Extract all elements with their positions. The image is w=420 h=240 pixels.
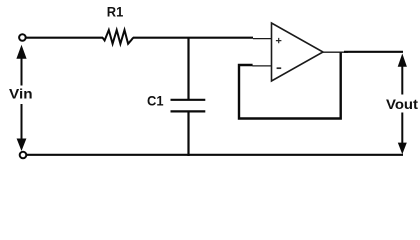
wire: bottom rail (26, 154, 403, 156)
svg-text:Vin: Vin (9, 87, 33, 102)
resistor R1 (103, 30, 134, 44)
wire: op-amp output stub (322, 51, 348, 53)
Vin double-headed arrow (5, 45, 38, 151)
capacitor C1 (171, 100, 206, 112)
op-amp U1 (272, 23, 324, 81)
op-amp - input marking (277, 67, 282, 69)
op-amp + input marking (276, 38, 282, 43)
wire: top rail left segment (terminal to R1) (26, 37, 103, 39)
Vout double-headed arrow (384, 54, 420, 155)
svg-text:R1: R1 (107, 5, 124, 20)
wire: capacitor branch upper segment (187, 37, 189, 99)
input terminal top circle (19, 34, 26, 41)
input terminal bottom circle (20, 152, 27, 159)
wire: inverting input stub (252, 65, 271, 67)
wire: output rail to Vout (344, 51, 403, 53)
wire: capacitor branch lower segment (187, 111, 189, 156)
svg-text:C1: C1 (147, 94, 164, 109)
svg-text:Vout: Vout (386, 97, 419, 112)
wire: feedback loop from output to - input (239, 53, 341, 119)
wire: top rail right segment (R1 to op-amp + input) (133, 37, 272, 40)
